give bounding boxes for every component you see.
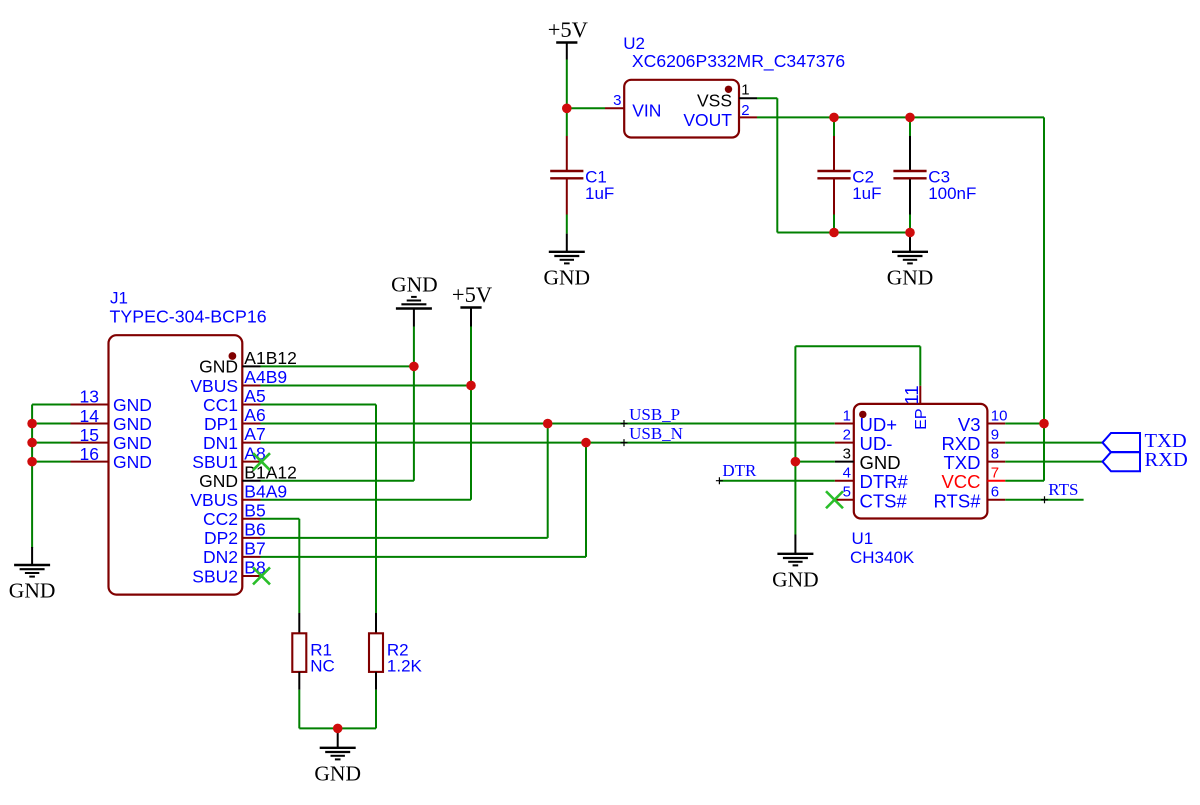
svg-text:VBUS: VBUS — [190, 490, 238, 510]
svg-text:CTS#: CTS# — [860, 490, 908, 511]
svg-text:UD-: UD- — [860, 433, 893, 454]
svg-text:+5V: +5V — [452, 282, 492, 307]
svg-text:GND: GND — [9, 579, 56, 603]
svg-text:2: 2 — [843, 426, 851, 443]
svg-text:3: 3 — [613, 92, 621, 109]
svg-text:RTS: RTS — [1048, 480, 1078, 499]
svg-text:VSS: VSS — [697, 91, 732, 111]
svg-text:DN1: DN1 — [203, 433, 238, 453]
svg-text:VIN: VIN — [632, 101, 661, 121]
svg-text:+5V: +5V — [548, 17, 588, 42]
svg-text:CC1: CC1 — [203, 395, 238, 415]
svg-text:GND: GND — [199, 357, 238, 377]
svg-text:GND: GND — [113, 433, 152, 453]
svg-text:1: 1 — [843, 407, 851, 424]
svg-text:11: 11 — [901, 385, 922, 404]
svg-text:SBU1: SBU1 — [192, 452, 238, 472]
svg-text:CH340K: CH340K — [850, 548, 915, 567]
svg-text:U1: U1 — [852, 529, 874, 548]
svg-text:GND: GND — [113, 395, 152, 415]
svg-text:15: 15 — [80, 425, 99, 445]
svg-text:A4B9: A4B9 — [244, 367, 287, 387]
svg-text:RXD: RXD — [941, 433, 980, 454]
svg-text:TXD: TXD — [944, 452, 981, 473]
svg-text:GND: GND — [772, 567, 819, 591]
svg-text:DN2: DN2 — [203, 547, 238, 567]
svg-text:10: 10 — [991, 407, 1008, 424]
svg-text:4: 4 — [843, 465, 851, 482]
svg-text:A1B12: A1B12 — [244, 348, 297, 368]
svg-text:GND: GND — [391, 273, 438, 297]
svg-text:USB_P: USB_P — [629, 405, 680, 424]
svg-text:GND: GND — [199, 471, 238, 491]
svg-text:3: 3 — [843, 445, 851, 462]
svg-text:9: 9 — [991, 426, 999, 443]
svg-text:RTS#: RTS# — [934, 490, 982, 511]
svg-text:1uF: 1uF — [852, 184, 881, 203]
svg-text:DTR: DTR — [722, 461, 757, 480]
svg-text:NC: NC — [310, 656, 335, 675]
svg-text:RXD: RXD — [1145, 449, 1188, 471]
svg-text:GND: GND — [860, 452, 901, 473]
svg-text:V3: V3 — [958, 414, 981, 435]
svg-text:VCC: VCC — [941, 471, 980, 492]
svg-text:1.2K: 1.2K — [387, 656, 423, 675]
svg-text:DP2: DP2 — [204, 528, 238, 548]
svg-text:GND: GND — [887, 265, 934, 289]
svg-text:8: 8 — [991, 445, 999, 462]
svg-text:VOUT: VOUT — [683, 110, 732, 130]
svg-text:A7: A7 — [244, 424, 265, 444]
svg-text:A6: A6 — [244, 405, 265, 425]
svg-text:DP1: DP1 — [204, 414, 238, 434]
svg-text:B5: B5 — [244, 500, 265, 520]
svg-text:EP: EP — [913, 408, 930, 429]
svg-text:14: 14 — [80, 406, 100, 426]
svg-text:B1A12: B1A12 — [244, 462, 297, 482]
svg-text:USB_N: USB_N — [629, 424, 683, 443]
svg-text:7: 7 — [991, 465, 999, 482]
svg-text:1uF: 1uF — [585, 184, 614, 203]
svg-text:13: 13 — [80, 387, 99, 407]
svg-text:U2: U2 — [623, 34, 645, 53]
svg-text:5: 5 — [843, 484, 851, 501]
svg-text:6: 6 — [991, 484, 999, 501]
svg-text:B6: B6 — [244, 519, 265, 539]
svg-text:B4A9: B4A9 — [244, 481, 287, 501]
svg-text:TYPEC-304-BCP16: TYPEC-304-BCP16 — [110, 307, 267, 327]
svg-text:2: 2 — [741, 102, 749, 119]
svg-text:XC6206P332MR_C347376: XC6206P332MR_C347376 — [632, 51, 845, 72]
svg-text:B7: B7 — [244, 539, 265, 559]
svg-text:J1: J1 — [110, 289, 128, 308]
svg-text:1: 1 — [741, 82, 749, 99]
svg-text:GND: GND — [314, 761, 361, 785]
svg-text:CC2: CC2 — [203, 509, 238, 529]
svg-text:GND: GND — [113, 414, 152, 434]
svg-text:16: 16 — [80, 444, 99, 464]
svg-text:100nF: 100nF — [928, 184, 976, 203]
svg-text:UD+: UD+ — [860, 414, 898, 435]
svg-text:DTR#: DTR# — [860, 471, 909, 492]
svg-text:GND: GND — [544, 265, 591, 289]
svg-text:GND: GND — [113, 452, 152, 472]
svg-text:A5: A5 — [244, 386, 265, 406]
svg-text:SBU2: SBU2 — [192, 566, 238, 586]
svg-text:VBUS: VBUS — [190, 376, 238, 396]
